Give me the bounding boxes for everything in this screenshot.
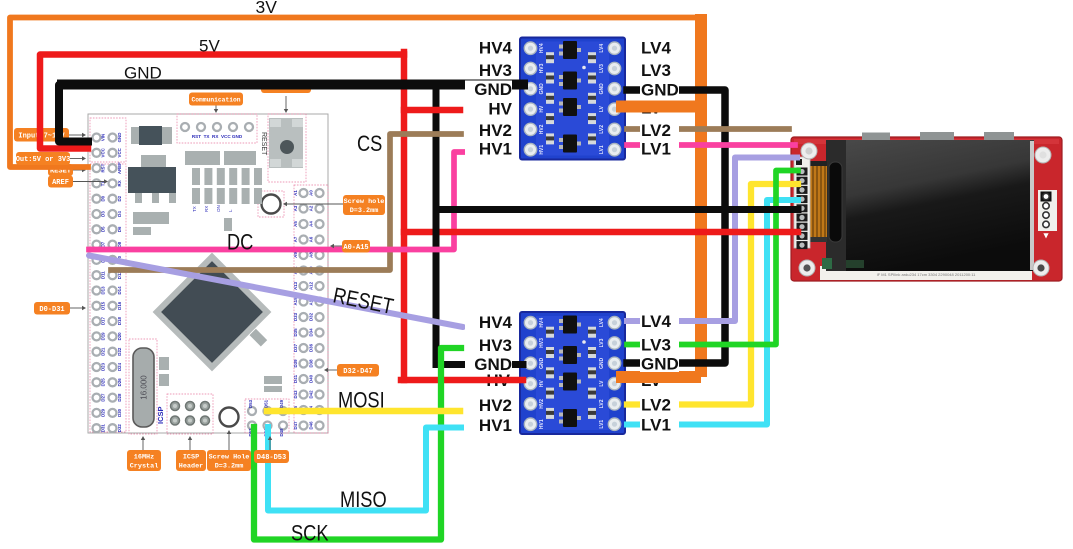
wire red HV stub (top converter) (404, 107, 460, 114)
svg-text:GND: GND (124, 64, 162, 83)
wire LV3 green to display (SCK side) (627, 171, 798, 345)
wire SCK green: from D52 down and up to HV3 (bottom converter) (254, 348, 461, 540)
svg-text:A5: A5 (293, 221, 298, 227)
svg-text:GND: GND (641, 355, 679, 374)
svg-text:D37: D37 (293, 343, 298, 352)
svg-text:D25: D25 (101, 378, 106, 387)
svg-text:D32: D32 (117, 424, 122, 433)
display bottom silk strip (820, 266, 1032, 280)
label HV3 (top converter left) (465, 62, 512, 79)
label callout: A0-A15 (342, 240, 370, 253)
wire 3V orange: left drop to 3V3 pin, top run, right drop (10, 18, 701, 168)
svg-text:D48-D53: D48-D53 (257, 454, 286, 462)
svg-text:LV3: LV3 (599, 338, 605, 347)
svg-text:D6: D6 (117, 226, 122, 232)
wire red vertical trunk (401, 52, 408, 380)
component: voltage regulator (141, 155, 166, 167)
svg-text:LV1: LV1 (641, 140, 671, 159)
wire MOSI yellow: from D51 to HV2 (bottom converter) (267, 408, 460, 415)
wire black trunk patch over red (433, 213, 440, 244)
svg-text:D33: D33 (293, 312, 298, 321)
display metal tabs (862, 133, 890, 142)
svg-text:D36: D36 (309, 343, 314, 352)
svg-text:HV3: HV3 (539, 338, 545, 348)
svg-text:IF M1 SPIlink ardu234 17cm 330: IF M1 SPIlink ardu234 17cm 3304 2290048 … (877, 272, 977, 277)
svg-text:D13: D13 (101, 286, 106, 295)
svg-text:A7: A7 (293, 236, 298, 242)
module U1 (top): 4-ch bidirectional logic level converter (520, 38, 625, 160)
svg-text:LV3: LV3 (641, 61, 671, 80)
pointer line to VIN (69, 134, 82, 136)
label callout: 16MHz Crystal (127, 450, 161, 471)
svg-text:D22: D22 (117, 347, 122, 356)
svg-text:SCK: SCK (291, 522, 329, 544)
label HV3 (bottom converter left) (465, 337, 512, 354)
wire GND right link (top converter to bottom converter) (627, 90, 725, 363)
wire 5V red: drop to VCC pin and feed line (40, 55, 404, 149)
svg-text:D26: D26 (117, 378, 122, 387)
wire LV2 yellow to display (MOSI side) (627, 184, 798, 405)
label HV1 (top converter left) (465, 140, 512, 157)
display green tabs (822, 258, 832, 269)
label HV4 (top converter left) (465, 39, 512, 56)
board A1: Arduino Mega 2560 Pro (embed) (88, 114, 328, 437)
svg-text:D29: D29 (101, 408, 106, 417)
svg-text:D21: D21 (101, 347, 106, 356)
svg-text:A1: A1 (293, 190, 298, 196)
svg-text:A0: A0 (309, 190, 314, 196)
label GND (top converter right) (640, 81, 679, 98)
svg-text:HV1: HV1 (479, 416, 512, 435)
svg-text:D15: D15 (101, 301, 106, 310)
label LV3 (top converter right) (640, 62, 679, 79)
svg-text:A0-A15: A0-A15 (343, 244, 368, 252)
pointer line to RST (73, 169, 82, 171)
svg-text:TX: TX (192, 206, 197, 212)
svg-text:GND: GND (641, 81, 679, 100)
svg-text:D14: D14 (117, 286, 122, 295)
svg-text:LV4: LV4 (641, 39, 671, 58)
svg-text:D0: D0 (101, 195, 106, 201)
svg-text:D16: D16 (117, 301, 122, 310)
svg-text:D35: D35 (293, 328, 298, 337)
svg-text:VIN: VIN (101, 134, 106, 141)
svg-text:GND: GND (539, 357, 545, 369)
svg-text:D4: D4 (117, 211, 122, 217)
label GND (top converter left) (465, 81, 512, 98)
svg-text:HV3: HV3 (479, 61, 512, 80)
wire MISO cyan: from D50 down and up to HV1 (bottom converter) (268, 427, 461, 511)
module U2 (bottom): 4-ch bidirectional logic level converter (520, 312, 625, 434)
svg-text:HV2: HV2 (539, 124, 545, 134)
svg-text:D40: D40 (309, 374, 314, 383)
svg-text:MISO: MISO (340, 489, 387, 513)
svg-text:16.000: 16.000 (140, 375, 149, 400)
svg-text:HV2: HV2 (539, 399, 545, 409)
svg-text:GND: GND (474, 355, 512, 374)
wire orange stub to LV pin (top converter) (616, 101, 701, 113)
svg-text:HV: HV (539, 379, 545, 387)
svg-text:D38: D38 (309, 359, 314, 368)
screw hole top-right (262, 195, 281, 214)
svg-text:D27: D27 (101, 393, 106, 402)
wire CS brown: from D10 up to HV2 (top converter) (111, 134, 461, 270)
display header strip J1 (794, 157, 810, 248)
wire red HV feed (bottom converter) (401, 377, 523, 384)
svg-text:A13: A13 (293, 281, 298, 290)
svg-text:LV3: LV3 (641, 336, 671, 355)
component: 16MHz crystal (133, 348, 154, 427)
pointer line to bottom header (269, 440, 271, 450)
svg-text:LV: LV (599, 380, 605, 387)
svg-text:LV1: LV1 (599, 420, 605, 429)
component: polyfuse top-left (131, 127, 172, 144)
label LV3 (bottom converter right) (640, 336, 679, 353)
svg-text:HV2: HV2 (479, 121, 512, 140)
svg-text:VCC: VCC (101, 147, 106, 157)
svg-text:D31: D31 (101, 424, 106, 433)
svg-text:HV: HV (488, 100, 512, 119)
svg-text:A12: A12 (309, 281, 314, 290)
pointer line to right header low (328, 369, 337, 371)
right header pin holes A0-A15 / D33-D47 (300, 189, 308, 197)
pointer line to left header (70, 307, 82, 309)
label LV2 (bottom converter right) (640, 396, 679, 413)
svg-text:RX: RX (204, 206, 209, 212)
label HV4 (bottom converter left) (465, 314, 512, 331)
label callout: hidden In-Output box (261, 80, 311, 93)
svg-text:RST: RST (101, 163, 106, 172)
svg-text:D8: D8 (117, 241, 122, 247)
svg-text:Communication: Communication (191, 97, 240, 104)
svg-text:LV2: LV2 (599, 125, 605, 134)
svg-text:D48: D48 (279, 428, 284, 437)
svg-text:DC: DC (227, 231, 253, 255)
svg-text:A6: A6 (309, 236, 314, 242)
svg-text:D=3.2mm: D=3.2mm (215, 463, 244, 471)
display right header footprint (1038, 190, 1057, 231)
svg-text:AREF: AREF (52, 179, 69, 187)
pointer line to AREF pin (73, 181, 104, 183)
screw hole bottom (220, 408, 239, 427)
svg-text:LV: LV (599, 105, 605, 112)
svg-text:HV1: HV1 (539, 145, 545, 155)
svg-text:LV2: LV2 (641, 121, 671, 140)
svg-text:LV1: LV1 (641, 416, 671, 435)
wire CS brown to display (from LV2 top) (627, 126, 789, 132)
svg-text:D49: D49 (279, 399, 284, 408)
svg-text:D24: D24 (117, 362, 122, 371)
svg-text:Header: Header (179, 463, 203, 471)
label callout: D48-D53 (254, 450, 289, 463)
wire black to display GND (436, 206, 798, 213)
svg-text:LV4: LV4 (641, 312, 671, 331)
svg-text:RESET: RESET (260, 132, 267, 156)
wire LV1 cyan to display (MISO side) (627, 200, 798, 425)
svg-text:D7: D7 (101, 241, 106, 247)
svg-text:D41: D41 (293, 374, 298, 383)
svg-text:GND: GND (474, 80, 512, 99)
component: resistor bank (192, 168, 200, 185)
svg-text:D32-D47: D32-D47 (343, 368, 372, 376)
svg-text:LV4: LV4 (599, 44, 605, 53)
svg-text:HV3: HV3 (479, 336, 512, 355)
svg-text:HV4: HV4 (479, 39, 513, 58)
label callout: Communication (189, 93, 243, 106)
svg-text:HV4: HV4 (539, 43, 545, 53)
label callout: D32-D47 (337, 364, 379, 377)
svg-text:LV2: LV2 (641, 396, 671, 415)
display LCD glass (826, 140, 1034, 271)
svg-text:HV2: HV2 (479, 396, 512, 415)
label callout: Input 7~12V (14, 128, 69, 142)
svg-text:RX: RX (117, 180, 122, 186)
display flex cable (810, 164, 827, 240)
svg-text:D39: D39 (293, 359, 298, 368)
label LV1 (top converter right) (640, 140, 679, 157)
label callout: AREF (48, 176, 73, 188)
svg-text:D17: D17 (101, 317, 106, 326)
svg-text:5V: 5V (199, 37, 220, 56)
svg-text:CS: CS (357, 133, 382, 157)
svg-text:HV3: HV3 (539, 63, 545, 73)
wire DC pink to display (from LV1 top) (627, 142, 795, 148)
svg-text:ICSP: ICSP (183, 454, 199, 462)
label callout: RESET (48, 164, 73, 176)
communication header RST TX RX VCC GND (181, 123, 189, 131)
svg-text:MOSI: MOSI (338, 389, 385, 413)
svg-text:D43: D43 (293, 390, 298, 399)
wire red to display LED/VCC (404, 229, 798, 236)
svg-text:D18: D18 (117, 317, 122, 326)
svg-text:A8: A8 (309, 252, 314, 258)
svg-text:D19: D19 (101, 332, 106, 341)
svg-text:D46: D46 (309, 421, 314, 430)
pointer line to VCC (70, 158, 82, 160)
svg-text:AREF: AREF (117, 162, 122, 174)
svg-text:D53: D53 (248, 399, 253, 408)
label GND (bottom converter left) (465, 356, 512, 373)
wire orange stub to LV pin (bottom converter) (616, 371, 701, 383)
svg-text:GND: GND (117, 133, 122, 143)
svg-text:Out:5V or 3V3: Out:5V or 3V3 (16, 156, 71, 164)
component: capacitors row (185, 151, 220, 165)
svg-text:LV3: LV3 (599, 64, 605, 73)
wire black vertical trunk (GND to bottom converter) (436, 86, 523, 365)
svg-text:LV4: LV4 (599, 318, 605, 327)
svg-text:D5: D5 (101, 226, 106, 232)
pointer line to crystal (142, 440, 144, 450)
svg-text:ICSP: ICSP (156, 406, 165, 424)
svg-text:D32: D32 (309, 312, 314, 321)
wire DC pink: from D9 to HV1 (top converter) (89, 152, 464, 250)
svg-text:VCC: VCC (117, 147, 122, 157)
svg-text:A9: A9 (293, 252, 298, 258)
svg-text:HV1: HV1 (539, 419, 545, 429)
display LCD1: 2.2 inch SPI TFT module (791, 132, 1062, 281)
pointer line to comm header (215, 106, 217, 110)
component: smd caps near chip (250, 329, 268, 347)
svg-text:Screw hole: Screw hole (344, 198, 385, 206)
svg-text:GND: GND (599, 357, 605, 369)
svg-text:HV1: HV1 (479, 140, 512, 159)
svg-text:D51: D51 (264, 399, 269, 408)
label callout: ICSP Header (176, 450, 206, 471)
svg-text:D11: D11 (101, 271, 106, 279)
svg-text:D28: D28 (117, 393, 122, 402)
wire GND black: main run and drop to GND pin (59, 85, 90, 142)
pointer line to screw hole (287, 203, 343, 205)
svg-text:D23: D23 (101, 362, 106, 371)
label LV4 (top converter right) (640, 39, 679, 56)
svg-text:HV: HV (539, 105, 545, 113)
svg-text:3V: 3V (256, 0, 278, 17)
svg-text:GND: GND (599, 83, 605, 95)
label HV2 (bottom converter left) (465, 397, 512, 414)
label callout: Out:5V or 3V3 (16, 152, 71, 165)
label LV4 (bottom converter right) (640, 313, 679, 330)
svg-text:D47: D47 (293, 421, 298, 430)
svg-text:GND: GND (539, 83, 545, 95)
svg-text:HV4: HV4 (539, 318, 545, 328)
label HV2 (top converter left) (465, 122, 512, 139)
svg-text:A2: A2 (309, 205, 314, 211)
label GND (bottom converter right) (640, 355, 679, 372)
left header pin holes D0-D31 (93, 134, 101, 142)
wire LV4 purple to display (SDO) (627, 158, 797, 322)
svg-text:D34: D34 (309, 328, 314, 337)
svg-text:Crystal: Crystal (130, 463, 159, 471)
ICSP header (171, 402, 180, 411)
svg-text:A3: A3 (293, 205, 298, 211)
svg-text:D0-D31: D0-D31 (39, 306, 64, 314)
label callout: Screw Hole D=3.2mm (bottom) (207, 450, 251, 471)
display flex connector (826, 140, 846, 271)
label callout: Screw hole D=3.2mm (right) (343, 195, 385, 215)
svg-text:D=3.2mm: D=3.2mm (350, 207, 379, 215)
label callout: D0-D31 (34, 302, 70, 315)
pointer line to ICSP (189, 440, 191, 450)
label LV2 (top converter right) (640, 122, 679, 139)
display mounting holes (801, 143, 817, 159)
svg-text:LV2: LV2 (599, 399, 605, 408)
bottom header D48-D53 (248, 407, 256, 415)
pointer line to board top (285, 96, 287, 109)
svg-text:D42: D42 (309, 390, 314, 399)
label HV (top converter left) (465, 100, 512, 117)
pointer line to screw hole bottom (228, 434, 230, 450)
svg-text:ON: ON (216, 205, 221, 212)
svg-text:D2: D2 (117, 195, 122, 201)
label LV1 (bottom converter right) (640, 416, 679, 433)
svg-text:A4: A4 (309, 221, 314, 227)
svg-text:D3: D3 (101, 211, 106, 217)
svg-text:D30: D30 (117, 408, 122, 417)
svg-text:HV4: HV4 (479, 313, 513, 332)
svg-text:16MHz: 16MHz (134, 454, 154, 462)
svg-text:D20: D20 (117, 332, 122, 341)
svg-text:Screw Hole: Screw Hole (209, 454, 250, 462)
wire RESET purple diagonal (89, 256, 463, 328)
pointer line to right header (334, 245, 342, 247)
svg-text:LV1: LV1 (599, 145, 605, 154)
label HV1 (bottom converter left) (465, 417, 512, 434)
component: reset button (269, 118, 303, 168)
svg-text:RST TX RX VCC GND: RST TX RX VCC GND (192, 134, 243, 139)
component: ATmega2560 chip (153, 253, 272, 372)
